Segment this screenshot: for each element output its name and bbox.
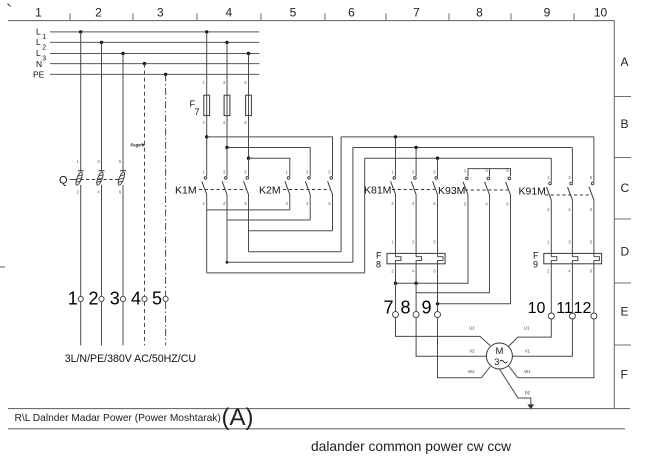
svg-text:Q: Q [59,175,68,187]
wire F8-2 to terminal 8 [415,260,417,311]
svg-text:2: 2 [42,44,46,51]
wire K1M pole2 output [226,195,228,263]
wire F8-1 to terminal 7 [395,260,397,311]
wire Q pole2 to terminal 2 [101,185,103,296]
wire F9-3 to terminal 12 [593,260,595,313]
svg-text:C: C [621,181,630,195]
contactor K93M pole3 [508,177,511,180]
wire K93M bridge stub [489,169,491,177]
contactor K81M linkage [392,189,435,191]
contactor K2M pole1 [287,177,290,180]
contactor K81M pole3 [435,177,438,180]
svg-text:L: L [36,48,41,58]
node star branch 7 [394,282,397,285]
contactor K91M pole1 [549,182,552,185]
bus line PE [50,73,259,75]
wire feed K81M pole3 [437,158,439,176]
node K81M pole1 feed [394,135,397,138]
node L3-Q tap [121,52,124,55]
svg-text:2: 2 [95,5,102,19]
wire below terminal 1 [80,302,82,345]
wire terminal 10 to motor U1 [509,319,552,346]
wire bus row6 [207,272,365,274]
wire L3 to Q pole3 [122,54,124,171]
contactor K1M pole2 [225,177,228,180]
svg-text:L: L [36,27,41,37]
bus line N [50,63,259,65]
node row5 corner [226,261,229,264]
svg-text:5: 5 [152,289,162,309]
terminal 2 [99,296,104,301]
wire K2M pole3 output [332,195,334,231]
svg-text:4: 4 [131,289,141,309]
wire F9-1 to terminal 10 [550,260,552,313]
wire F8-3 to terminal 9 [437,260,439,311]
wire F7-1 to K1M pole1 [206,137,208,176]
svg-text:W2: W2 [468,369,475,374]
svg-text:3L/N/PE/380V AC/50HZ/CU: 3L/N/PE/380V AC/50HZ/CU [65,353,196,365]
switch Q linkage tick [70,179,75,181]
motor M1 tilde [500,360,508,363]
fuse F7 pole1 body [204,95,210,115]
svg-text:F: F [621,367,628,381]
svg-text:10: 10 [594,5,608,19]
wire feed K81M pole2 [415,148,417,177]
wire F7-3 to K2M pole1 [249,158,290,176]
wire K2M pole1 output [289,195,291,210]
top-left corner mark [8,4,11,7]
contactor K91M pole3 [591,182,594,185]
row tick marks [614,96,631,98]
wire L2 to Q pole2 [101,42,103,170]
wire K1M pole3 output [248,195,250,252]
wire feed K91M pole1 [550,158,552,182]
svg-text:K93M: K93M [438,185,465,197]
svg-text:(A): (A) [222,404,254,431]
terminal 4 [142,296,147,301]
wire bus row4 [249,251,342,253]
wire merge row1 K1M2-K2M2 [207,209,290,211]
wire K93M pole3 output [438,195,511,304]
overload F9 heater3 [594,257,600,261]
contactor K2M pole2 [308,177,311,180]
contactor K91M linkage [545,194,591,196]
svg-text:3: 3 [42,55,46,62]
wire K81M pole2 to F8 [415,195,417,257]
wire PE vertical dash-dot [165,74,167,296]
svg-text:10: 10 [528,300,546,317]
fuse F7 pole2 body [224,95,230,115]
svg-text:8: 8 [376,260,381,270]
title block upper line [8,408,630,410]
terminal 10 [548,313,554,319]
wire K81M pole3 to F8 [437,195,439,257]
contactor K1M linkage [199,189,246,191]
wire K2M pole2 output [309,195,311,221]
contactor K2M pole3 [330,177,333,180]
terminal 1 [78,296,83,301]
wire terminal 8 to motor V2 [416,318,486,357]
terminal 3 [120,296,125,301]
svg-text:E: E [621,304,629,318]
wire K91M pole2 to F9 [571,200,573,257]
wire terminal 12 to motor W1 [509,319,594,378]
wire F7-2 to K1M pole2 [226,148,228,177]
title block lower line [8,428,625,430]
svg-text:7: 7 [383,298,393,318]
switch Q pole2 contact [99,170,105,172]
contactor K1M pole3 [246,177,249,180]
terminal 11 [569,313,575,319]
svg-text:9: 9 [421,298,431,318]
node L1-Q tap [79,30,82,33]
node PE tap [164,73,167,76]
wire K91M pole1 to F9 [550,200,552,257]
switch Q pole3 contact [120,170,126,172]
wire phase bus outer [341,136,594,138]
drawing frame top border [8,20,614,22]
contactor K93M linkage [465,189,508,191]
svg-text:11: 11 [556,300,573,317]
contactor K81M pole1 [393,177,396,180]
svg-text:U1: U1 [524,326,530,331]
fuse F7 pole3 body [246,95,252,115]
svg-text:N: N [36,59,42,69]
svg-text:D: D [621,244,630,258]
svg-text:K2M: K2M [259,185,281,197]
wire row6 riser [364,158,366,273]
motor M1 circle [486,343,512,369]
svg-text:9: 9 [533,260,538,270]
svg-text:dalander common power cw ccw: dalander common power cw ccw [311,439,511,454]
wire F7-3 to K1M pole3 [248,158,250,176]
svg-text:K81M: K81M [364,185,391,197]
wire Q pole1 to terminal 1 [80,185,82,296]
terminal 8 [413,312,419,318]
wire below terminal 3 [122,302,124,345]
wire terminal 7 to motor U2 [396,318,491,346]
svg-text:7: 7 [195,107,200,117]
svg-text:8: 8 [400,298,410,318]
wire below terminal 4 dashed [144,302,146,345]
node F7-2 output [225,146,228,149]
wire feed K91M pole3 [593,137,595,182]
svg-text:L: L [36,37,41,47]
wire K81M pole1 to F8 [395,195,397,257]
wire L1 to fuse F7-1 [206,32,208,137]
node N tap [143,62,146,65]
wire row5 riser [352,148,354,263]
bus line L1 [50,31,259,33]
wire K93M pole2 output [416,195,489,293]
svg-text:3: 3 [494,357,499,368]
contactor K1M pole1 [204,177,207,180]
overload F9 heater2 [572,257,578,261]
svg-text:8: 8 [476,5,483,19]
column tick marks [69,13,71,20]
wire K93M pole1 output [396,195,469,283]
svg-text:V1: V1 [525,349,531,354]
wire F7-1 to K2M pole3 [207,137,333,176]
wire L3 to fuse F7-3 [248,54,250,159]
svg-text:1: 1 [68,289,78,309]
svg-text:A: A [621,55,629,69]
svg-text:W1: W1 [524,369,531,374]
terminal 7 [393,312,399,318]
svg-text:U2: U2 [469,326,475,331]
wire K1M pole1 output [206,195,208,273]
terminal 5 [163,296,168,301]
node K81M pole2 feed [414,146,417,149]
overload F9 heater1 [551,257,557,261]
terminal 12 [591,313,597,319]
svg-text:9: 9 [544,5,551,19]
node K81M pole3 feed [436,157,439,160]
contactor K93M pole1 [466,177,469,180]
svg-text:12: 12 [574,300,592,317]
node L3-F7 tap [247,52,250,55]
node F7-3 output [247,157,250,160]
svg-text:3: 3 [110,289,120,309]
svg-text:R\L Dalnder Madar Power (Powe: R\L Dalnder Madar Power (Power Moshtarak… [15,413,221,424]
wire F9-2 to terminal 11 [571,260,573,313]
svg-text:K91M: K91M [519,186,546,198]
overload F8 heater3 [438,257,444,261]
svg-text:1: 1 [35,5,42,19]
left edge dash mark [0,266,5,268]
wire N vertical dashed [144,64,146,296]
node L2-F7 tap [225,41,228,44]
svg-text:M: M [495,346,503,357]
svg-text:7: 7 [413,5,420,19]
wire L2 to fuse F7-2 [226,42,228,147]
wire F7-2 to K2M pole2 [227,148,310,177]
wire K91M pole3 to F9 [593,200,595,257]
drawing frame right border [613,21,615,409]
wire terminal 11 to motor V1 [512,319,572,356]
wire terminal 9 to motor W2 [438,318,491,378]
wire merge row3 K1M6-K2M6 [249,230,333,232]
svg-text:PE: PE [525,391,531,396]
switch Q pole1 contact [78,170,84,172]
bus line L2 [50,41,259,43]
svg-text:1: 1 [42,34,46,41]
svg-text:6: 6 [348,5,355,19]
contactor K81M pole2 [414,177,417,180]
wire L1 to Q pole1 [80,32,82,171]
contactor K93M pole2 [487,177,490,180]
terminal 9 [435,312,441,318]
wire row4 riser [340,137,342,252]
svg-text:PE: PE [33,70,45,80]
node star branch crossing [414,282,417,285]
wire K93M star bridge [468,169,511,177]
contactor K91M pole2 [570,182,573,185]
contactor K2M linkage [283,189,330,191]
wire phase bus middle [353,147,573,149]
wire below terminal 5 dash-dot [165,302,167,345]
wire merge row2 K1M4-K2M4 [227,219,310,221]
svg-text:3: 3 [157,5,164,19]
overload F9 body [544,253,602,263]
ground arrow [527,404,534,409]
node F7-1 output [205,135,208,138]
bus line L3 [50,53,259,55]
wire bus row5 [227,261,353,263]
svg-text:4: 4 [226,5,233,19]
svg-text:V2: V2 [469,349,475,354]
overload F8 heater1 [396,257,402,261]
wire phase bus inner [365,157,552,159]
node L2-Q tap [100,41,103,44]
switch Q mechanical linkage [75,179,122,181]
node star branch 9 [436,302,439,305]
svg-text:B: B [621,117,629,131]
wire feed K91M pole2 [571,148,573,182]
svg-text:5: 5 [290,5,297,19]
wire feed K81M pole1 [395,137,397,176]
overload F8 heater2 [416,257,422,261]
svg-text:2: 2 [88,289,98,309]
wire below terminal 2 [101,302,103,345]
wire motor PE [499,369,530,405]
wire Q pole3 to terminal 3 [122,185,124,296]
svg-text:K1M: K1M [175,185,197,197]
overload F8 body [387,253,445,263]
node L1-F7 tap [205,30,208,33]
